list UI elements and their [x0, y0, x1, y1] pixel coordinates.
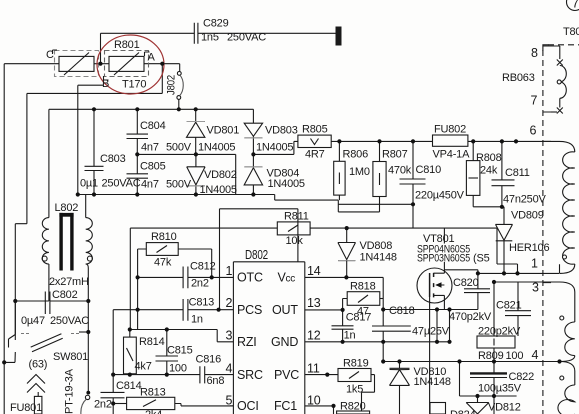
svg-text:SPP03N60S5: SPP03N60S5: [417, 253, 470, 265]
svg-text:1n5: 1n5: [201, 32, 219, 44]
svg-text:FC1: FC1: [274, 399, 297, 413]
wire R807 bottom link: [338, 197, 379, 212]
capacitor C818: [372, 326, 411, 362]
wire SRC row pin4: [113, 374, 233, 376]
jumper J803: [81, 395, 90, 414]
diode VD804: [244, 154, 262, 194]
choke L802 right winding: [86, 195, 93, 393]
svg-text:VD809: VD809: [511, 210, 544, 222]
svg-text:PT-19-3A: PT-19-3A: [64, 368, 76, 414]
svg-text:1k5: 1k5: [346, 384, 363, 396]
wire bottom bridge bus: [78, 195, 413, 212]
wire between thermistor boxes: [94, 63, 109, 65]
svg-text:1N4148: 1N4148: [414, 376, 451, 388]
svg-text:C818: C818: [389, 305, 415, 317]
svg-text:500V: 500V: [166, 179, 192, 191]
wire C829 top row: [101, 32, 339, 34]
fuse FU802: [433, 135, 468, 146]
wire J802 bottom to bus: [178, 100, 180, 110]
svg-text:R807: R807: [382, 149, 408, 161]
svg-text:12: 12: [307, 329, 321, 343]
svg-text:SW801: SW801: [53, 351, 88, 363]
svg-text:7: 7: [531, 94, 538, 108]
resistor R807: [373, 141, 386, 196]
svg-text:R818: R818: [350, 281, 376, 293]
svg-text:1M0: 1M0: [349, 166, 370, 178]
wire main rail y141: [331, 140, 559, 142]
svg-text:100: 100: [506, 350, 524, 362]
resistor R809: [477, 336, 515, 348]
svg-text:1n: 1n: [191, 314, 203, 326]
circled 7 top right: [567, 0, 579, 11]
wire OCI row pin5: [230, 405, 233, 407]
resistor R805: [298, 135, 331, 147]
svg-text:R811: R811: [284, 211, 309, 223]
svg-text:24k: 24k: [480, 165, 498, 177]
diode VD802: [187, 154, 205, 194]
capacitor C816: [200, 366, 205, 383]
svg-text:4k7: 4k7: [135, 361, 152, 373]
svg-text:11: 11: [307, 362, 320, 376]
svg-text:1N4005: 1N4005: [256, 142, 293, 154]
svg-text:D802: D802: [245, 248, 268, 262]
resistor R810: [138, 243, 212, 330]
wire VT801 drain to snubber line: [443, 228, 445, 273]
svg-text:PCS: PCS: [237, 303, 262, 317]
svg-text:T801: T801: [563, 26, 579, 38]
label VT801: [414, 244, 494, 263]
svg-text:250VAC: 250VAC: [50, 315, 89, 327]
svg-text:R801: R801: [114, 39, 140, 51]
svg-text:4: 4: [226, 362, 233, 376]
resistor R806: [334, 141, 345, 200]
svg-text:1N4148: 1N4148: [360, 252, 397, 264]
svg-text:1: 1: [531, 257, 538, 271]
svg-text:J802: J802: [166, 75, 178, 95]
svg-text:13: 13: [307, 296, 321, 310]
capacitor C802: [15, 292, 88, 315]
thermistor left dashed box: [55, 51, 99, 77]
wire VT801 source down: [383, 295, 478, 341]
wire gnd row pin12: [305, 341, 450, 343]
wire A-node up to C829: [100, 33, 102, 63]
svg-text:C813: C813: [189, 297, 215, 309]
svg-text:6n8: 6n8: [207, 375, 225, 387]
wire bottom right node y396: [460, 362, 517, 397]
svg-text:4n7: 4n7: [141, 179, 159, 191]
capacitor C813: [183, 299, 188, 321]
svg-text:OUT: OUT: [272, 303, 298, 317]
svg-text:RZI: RZI: [237, 335, 257, 349]
svg-text:C821: C821: [496, 300, 522, 312]
svg-text:PVC: PVC: [274, 368, 299, 382]
wire top AC bus y109: [49, 109, 254, 123]
resistor R814: [124, 330, 137, 375]
resistor R813: [113, 397, 233, 409]
transistor VT801: [417, 268, 452, 414]
thermistor left box: [59, 53, 94, 76]
svg-text:2n2: 2n2: [191, 278, 209, 290]
svg-text:C803: C803: [100, 153, 126, 165]
terminal bracket A: [145, 52, 150, 56]
resistor R819: [338, 369, 375, 412]
wire drain to C820 and pin1 row: [444, 270, 478, 274]
svg-text:1n: 1n: [344, 330, 356, 342]
svg-text:A: A: [148, 52, 156, 64]
wire PCS top link: [220, 209, 298, 310]
capacitor C812: [183, 267, 188, 289]
svg-text:R805: R805: [302, 124, 328, 136]
svg-text:2k4: 2k4: [145, 409, 162, 414]
diode VD809: [496, 207, 513, 274]
capacitor C822: [470, 362, 507, 414]
diode VD801: [187, 109, 205, 154]
svg-text:2x27mH: 2x27mH: [49, 276, 89, 288]
svg-text:C811: C811: [505, 167, 530, 179]
terminal bracket C: [53, 50, 58, 54]
svg-text:C: C: [46, 49, 54, 61]
wire R811 left down to RZI line: [129, 228, 131, 329]
wire left AC line from left thermistor: [4, 64, 59, 414]
wire snubber gate line y228: [310, 228, 517, 273]
svg-text:C814: C814: [116, 380, 142, 392]
svg-text:FU802: FU802: [434, 124, 466, 136]
svg-text:C804: C804: [140, 120, 166, 132]
wire primary pin1 row: [478, 264, 560, 273]
svg-text:1N4005: 1N4005: [268, 178, 305, 190]
svg-text:C829: C829: [203, 18, 229, 30]
svg-text:R819: R819: [343, 358, 369, 370]
resistor bottom middle (partial): [430, 403, 446, 414]
svg-text:C815: C815: [167, 345, 193, 357]
svg-text:3: 3: [532, 281, 539, 295]
svg-text:0µ1: 0µ1: [80, 178, 98, 190]
capacitor C820: [464, 273, 490, 309]
capacitor C810: [400, 141, 426, 204]
svg-text:VD802: VD802: [204, 169, 237, 181]
svg-text:47µ25V: 47µ25V: [412, 326, 450, 338]
svg-text:1N4005: 1N4005: [200, 184, 237, 196]
svg-text:220p2kV: 220p2kV: [478, 326, 521, 338]
wire bridge output to R805: [253, 141, 298, 154]
svg-text:GND: GND: [271, 335, 298, 349]
svg-text:4R7: 4R7: [305, 149, 325, 161]
svg-text:3: 3: [226, 329, 233, 343]
thermistor R801 dashed box: [105, 51, 149, 77]
wire RZI row pin3: [130, 330, 234, 342]
svg-text:4: 4: [532, 348, 539, 362]
svg-text:SRC: SRC: [237, 368, 263, 382]
capacitor C817: [332, 310, 354, 342]
transformer secondary winding A: [560, 282, 575, 362]
wire pin2 PCS row: [113, 310, 233, 375]
capacitor C814: [101, 375, 125, 414]
svg-text:47k: 47k: [154, 257, 172, 269]
svg-text:C816: C816: [196, 354, 222, 366]
svg-text:8: 8: [531, 46, 538, 60]
capacitor C803: [85, 109, 104, 194]
svg-text:5: 5: [226, 394, 233, 408]
wire left bus end down to L802: [48, 109, 50, 217]
wire pin3 row: [494, 281, 560, 283]
transformer box corner: [543, 45, 549, 51]
fuse FU801: [34, 392, 42, 414]
resistor R808: [466, 141, 502, 206]
label pin names right: [271, 271, 299, 414]
svg-text:D824: D824: [450, 409, 476, 414]
svg-text:47n250V: 47n250V: [503, 194, 547, 206]
svg-text:100: 100: [169, 363, 187, 375]
switch SW801: [9, 301, 89, 352]
svg-text:B: B: [102, 78, 109, 90]
svg-text:6: 6: [530, 124, 537, 138]
svg-text:(S5: (S5: [473, 253, 490, 265]
svg-text:C822: C822: [509, 371, 535, 383]
svg-text:R813: R813: [140, 387, 166, 399]
svg-text:T170: T170: [122, 79, 146, 91]
svg-text:VD801: VD801: [207, 125, 240, 137]
svg-text:C820: C820: [453, 277, 479, 289]
svg-text:VD808: VD808: [360, 240, 393, 252]
svg-text:C810: C810: [416, 164, 442, 176]
svg-text:4n7: 4n7: [141, 142, 159, 154]
winding RB063: [551, 46, 566, 114]
wire A-node down to y93 line: [15, 64, 162, 340]
svg-text:C817: C817: [346, 312, 372, 324]
svg-text:C812: C812: [190, 261, 216, 273]
svg-text:L802: L802: [55, 202, 79, 214]
wire vcc row pin14: [305, 277, 383, 326]
capacitor C811: [492, 141, 515, 206]
resistor R820: [337, 411, 370, 414]
label pin numbers right: [307, 264, 321, 408]
wire pvc row pin11: [305, 374, 338, 376]
svg-text:C802: C802: [52, 289, 78, 301]
capacitor C805: [127, 154, 149, 194]
svg-text:VD803: VD803: [265, 125, 298, 137]
svg-text:2n2: 2n2: [94, 399, 112, 411]
svg-text:R810: R810: [151, 231, 177, 243]
wire B terminal down to bottom bridge bus: [78, 85, 104, 194]
resistor R818: [343, 292, 384, 310]
terminal bar (chassis): [336, 27, 342, 46]
diode VD803: [244, 123, 262, 154]
choke L802 left winding: [42, 218, 49, 301]
IC D802 box: [233, 262, 304, 414]
svg-text:100µ35V: 100µ35V: [478, 383, 522, 395]
transformer secondary winding B: [558, 362, 575, 414]
svg-text:250VAC: 250VAC: [102, 178, 141, 190]
wire C810 down to drain line: [412, 204, 414, 228]
wire pin1 OTC row: [138, 276, 234, 278]
transformer pin ticks: [543, 46, 551, 362]
svg-text:C805: C805: [140, 161, 166, 173]
svg-text:10k: 10k: [286, 235, 304, 247]
jumper J802: [177, 72, 183, 100]
svg-text:OCI: OCI: [237, 399, 259, 413]
wire switch to mains: [4, 352, 15, 362]
svg-text:470p2kV: 470p2kV: [449, 311, 492, 323]
svg-text:RB063: RB063: [502, 72, 535, 84]
svg-text:0µ47: 0µ47: [21, 315, 45, 327]
choke L802 core: [59, 213, 73, 271]
svg-text:cc: cc: [286, 274, 296, 285]
svg-text:(63): (63): [29, 359, 48, 371]
svg-text:R820: R820: [340, 401, 366, 413]
svg-text:HER106: HER106: [509, 242, 549, 254]
svg-text:R806: R806: [343, 149, 369, 161]
svg-text:R809: R809: [478, 350, 504, 362]
svg-text:1N4005: 1N4005: [198, 142, 235, 154]
wire right box to A node and J802: [144, 64, 180, 72]
wire mid line y154: [137, 154, 235, 194]
terminal bracket B: [104, 76, 109, 80]
wire fc1 row pin10: [305, 406, 334, 414]
svg-text:R814: R814: [139, 336, 165, 348]
mains plug chevrons: [27, 375, 45, 393]
svg-text:VP4-1A: VP4-1A: [433, 149, 471, 161]
diode VD808: [338, 228, 356, 277]
svg-text:R808: R808: [476, 152, 502, 164]
wire pin3 net down through R809 to pin4: [493, 282, 495, 362]
resistor R811: [130, 222, 310, 235]
transformer primary winding: [560, 141, 575, 273]
transformer T801 dashed box: [543, 45, 579, 414]
capacitor C829: [194, 23, 198, 44]
svg-text:250VAC: 250VAC: [227, 32, 266, 44]
svg-text:14: 14: [307, 264, 321, 278]
wire out row pin13: [305, 309, 343, 311]
capacitor C804: [127, 109, 149, 154]
svg-text:OTC: OTC: [237, 271, 263, 285]
svg-text:2: 2: [226, 296, 233, 310]
thermistor R801 box: [109, 53, 144, 76]
svg-text:7: 7: [572, 0, 579, 11]
svg-text:500V: 500V: [166, 142, 192, 154]
red ellipse highlight: [97, 35, 164, 94]
svg-text:1: 1: [226, 264, 233, 278]
svg-text:220µ450V: 220µ450V: [415, 190, 465, 202]
svg-text:10: 10: [307, 394, 321, 408]
svg-text:VD812: VD812: [488, 402, 521, 414]
svg-text:FU801: FU801: [10, 402, 42, 414]
label pin names left: [237, 271, 263, 414]
capacitor C821: [505, 282, 531, 336]
wire pin4 row: [383, 361, 559, 363]
label pin numbers left: [226, 264, 233, 408]
svg-text:470k: 470k: [388, 165, 412, 177]
diode VD810: [390, 362, 410, 414]
capacitor C815: [156, 330, 179, 375]
diode VD812: [466, 396, 489, 414]
